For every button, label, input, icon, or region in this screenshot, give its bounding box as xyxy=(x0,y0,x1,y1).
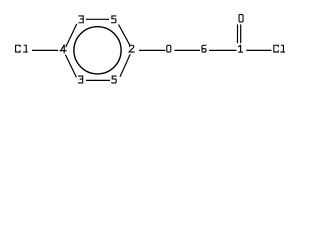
ring bond C3-C5 bottom xyxy=(86,79,110,81)
atom label Cl right (C) xyxy=(274,45,279,52)
ring bond C4-C3 upper-left xyxy=(66,24,77,47)
atom label Cl left (C) xyxy=(16,45,21,52)
bond S6-S1 xyxy=(209,49,236,51)
atom label 2 xyxy=(129,45,134,52)
atom label 4 xyxy=(60,45,66,53)
ring bond C5-C2 upper-right xyxy=(119,25,131,46)
atom label 5 bottom xyxy=(112,76,117,83)
double bond S1=O line 1 xyxy=(237,24,239,43)
atom label 3 top xyxy=(79,16,83,23)
bond O-S6 xyxy=(175,49,201,51)
ring bond C5-C2 lower-right xyxy=(120,54,130,77)
atom label 1 xyxy=(239,45,243,52)
atom label O carbonyl xyxy=(239,14,243,22)
ring bond C3-C5 top xyxy=(86,18,109,20)
atom label 5 top xyxy=(111,16,116,23)
double bond S1=O line 2 xyxy=(240,24,242,43)
atom label Cl right (l) xyxy=(281,45,285,52)
atom label O ester xyxy=(167,45,171,52)
ring bond C4-C3 lower-left xyxy=(65,55,76,78)
bond C2-O xyxy=(139,49,165,51)
atom label Cl left (l) xyxy=(24,45,28,52)
bond Cl-C4 xyxy=(32,49,58,51)
bond S1-Cl xyxy=(246,49,271,51)
atom label 6 xyxy=(202,45,206,52)
atom label 3 bottom xyxy=(78,76,82,83)
